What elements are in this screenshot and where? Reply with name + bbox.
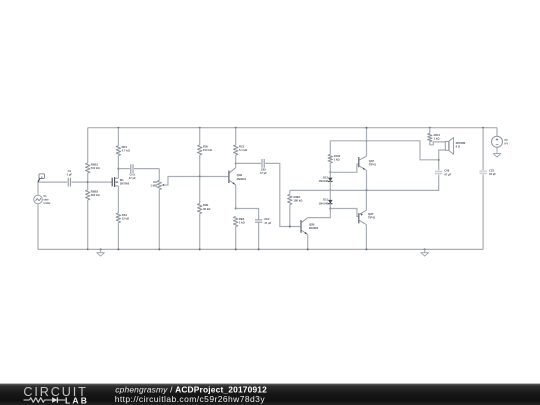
logo motif resistor — [30, 398, 53, 403]
node: RC2 top on rail — [235, 127, 237, 129]
node: pot ground junction — [158, 248, 160, 250]
voltage source V3 (9 V) — [492, 136, 503, 147]
node: Q1B collector node — [235, 162, 237, 164]
wire: output wire to R3B1 — [289, 190, 291, 194]
node: RE2 ground junction — [235, 248, 237, 250]
resistor RBB2 — [86, 190, 90, 200]
transistor Q2P (TIP42 PNP output) — [358, 213, 360, 223]
wire: collector node to C62 — [236, 162, 261, 164]
wire: pot bottom to ground rail — [158, 190, 160, 250]
wire: R162 to node A — [329, 163, 331, 172]
resistor RD1 — [116, 146, 120, 156]
wire: rail down to RBB1 — [87, 128, 89, 163]
svg-text:1 kΩ: 1 kΩ — [239, 221, 246, 225]
svg-text:V1: V1 — [43, 194, 47, 198]
transistor Q2B (2N3904 NPN VAS) — [300, 220, 302, 233]
wire: Q2B emitter to ground rail — [307, 235, 309, 250]
wire: wiper to Q1B base — [167, 177, 229, 186]
node: Q1B base bias node — [199, 176, 201, 178]
node: RD1 top on rail — [117, 127, 119, 129]
node: R312 top on rail — [429, 127, 431, 129]
wire: RBB1 to RBB2 — [87, 173, 89, 190]
wire: R2B to ground rail — [199, 214, 201, 250]
svg-text:2N3904: 2N3904 — [237, 177, 247, 181]
svg-text:C23: C23 — [489, 169, 494, 173]
svg-text:C1: C1 — [68, 169, 72, 173]
pot wiper arrow — [163, 184, 167, 186]
svg-text:1N4148: 1N4148 — [319, 179, 329, 183]
speaker SPKRM (8 Ω) — [445, 141, 448, 150]
wire: drain node to CH1 — [118, 168, 129, 170]
node flag: input node — [39, 174, 45, 179]
svg-text:http://circuitlab.com/c59r26hw: http://circuitlab.com/c59r26hw78d3y — [115, 394, 266, 404]
svg-text:D11: D11 — [323, 198, 328, 202]
svg-text:1 kΩ: 1 kΩ — [334, 157, 341, 161]
svg-text:R162: R162 — [334, 154, 341, 158]
wire: rail to R26 — [199, 128, 201, 145]
svg-text:1 µF: 1 µF — [67, 172, 73, 176]
wire: D11 to node C — [329, 204, 331, 209]
svg-text:510 kΩ: 510 kΩ — [91, 166, 101, 170]
wire: C10 to ground rail — [482, 175, 484, 250]
node: CE2 ground junction — [258, 248, 260, 250]
wire: C62 to Q2B base — [265, 163, 300, 226]
svg-text:TIP42: TIP42 — [368, 216, 376, 220]
transistor Q1B (2N3904 NPN) — [228, 171, 230, 184]
wire: R312 to speaker — [430, 142, 446, 145]
svg-text:CH1: CH1 — [130, 173, 136, 177]
capacitor C68 (47 µF electrolytic) — [435, 171, 442, 173]
svg-text:180 kΩ: 180 kΩ — [294, 198, 304, 202]
wire: RS1 to ground rail — [117, 223, 119, 250]
wire: rail to V3 — [496, 128, 498, 137]
resistor RS1 — [116, 213, 120, 223]
node: gate bias node — [87, 181, 89, 183]
resistor R312 — [428, 133, 432, 141]
svg-text:LAB: LAB — [65, 396, 89, 405]
svg-text:36 kΩ: 36 kΩ — [203, 207, 211, 211]
wire: rail to RC2 — [235, 128, 237, 145]
svg-text:390 kΩ: 390 kΩ — [91, 193, 101, 197]
svg-text:Q2P: Q2P — [368, 212, 374, 216]
node: V1 rail corner — [87, 249, 89, 251]
svg-text:Vol: Vol — [153, 180, 157, 184]
capacitor C1 — [68, 178, 70, 187]
svg-text:RBB2: RBB2 — [91, 189, 99, 193]
svg-text:1N4148: 1N4148 — [319, 201, 329, 205]
resistor R162 — [328, 154, 332, 163]
svg-text:47 µF: 47 µF — [264, 221, 271, 225]
wire: bottom ground rail — [38, 248, 483, 250]
transistor M1 (2N7000 NMOS) — [111, 178, 113, 187]
node: ground tap right — [424, 248, 426, 250]
node: Q2P ground junction — [365, 248, 367, 250]
node: C10 top on rail — [482, 127, 484, 129]
svg-text:C62: C62 — [261, 168, 266, 172]
wire: V3 to ground — [496, 147, 498, 150]
wire: speaker node down to C68 — [438, 160, 440, 171]
wire: node A to Q1P base — [330, 164, 358, 172]
capacitor C62 — [262, 159, 264, 168]
wire: R162 top / VCC link to speaker node — [330, 141, 438, 160]
transistor Q1P (TIP41 NPN output) — [358, 157, 360, 167]
wire: divider to M1 gate — [88, 181, 112, 183]
node: R26 top on rail — [199, 127, 201, 129]
node A: Q1P base node — [329, 171, 331, 173]
svg-text:Q2B: Q2B — [309, 222, 315, 226]
diode D12 (1N4148) — [328, 178, 333, 182]
svg-text:RC2: RC2 — [239, 145, 245, 149]
wire: Q2P collector to ground rail — [365, 225, 367, 250]
svg-text:R26: R26 — [203, 145, 208, 149]
svg-text:2N3904: 2N3904 — [309, 226, 319, 230]
svg-text:4.7 kΩ: 4.7 kΩ — [122, 149, 131, 153]
wire: VCC node to R162 — [329, 141, 331, 155]
wire: speaker node up to speaker — [439, 150, 446, 160]
wire: CH1 to volume pot — [134, 168, 159, 170]
node B: bias midpoint on output wire — [329, 189, 331, 191]
wire: Q1P emitter to output node — [366, 170, 368, 190]
capacitor CE2 — [255, 220, 262, 222]
svg-text:cphengrasmy / ACDProject_20170: cphengrasmy / ACDProject_20170912 — [115, 384, 267, 394]
svg-text:12 kΩ: 12 kΩ — [122, 216, 130, 220]
svg-text:R312: R312 — [434, 133, 441, 137]
svg-text:47 µF: 47 µF — [129, 176, 136, 180]
svg-text:M1: M1 — [120, 178, 124, 182]
svg-text:R2B: R2B — [203, 203, 208, 207]
ground symbol (input stage) — [100, 249, 102, 252]
resistor RC2 — [234, 145, 238, 155]
ground symbol (output stage) — [424, 249, 426, 252]
svg-text:RS1: RS1 — [122, 213, 128, 217]
node: rail junction above Q1P — [366, 127, 368, 129]
wire: Q2P emitter to output node — [365, 190, 367, 210]
wire: V1 bottom to ground rail — [37, 204, 39, 250]
wire: M1 source down to RS1 — [117, 186, 119, 213]
capacitor CH1 — [131, 164, 133, 173]
logo motif wire — [24, 399, 30, 401]
wire: RD1 to drain node — [117, 156, 119, 169]
svg-text:1 MΩ: 1 MΩ — [150, 184, 157, 188]
node: Q2B base junction — [289, 226, 291, 228]
wire: R26 to base node — [199, 155, 201, 177]
resistor RE2 — [234, 217, 238, 227]
wire: rail to C10 — [482, 128, 484, 170]
wire: Q1B emitter down — [235, 185, 237, 209]
capacitor C10 (supply bypass) — [479, 171, 486, 173]
svg-text:150 kΩ: 150 kΩ — [203, 148, 213, 152]
node: ground tap — [100, 248, 102, 250]
wire: emitter node to CE2 — [236, 209, 259, 220]
svg-text:sine: sine — [43, 197, 49, 201]
svg-text:33 µF: 33 µF — [489, 172, 496, 176]
svg-text:C68: C68 — [444, 169, 449, 173]
wire: R3B1 to Q2B base — [289, 205, 291, 227]
svg-text:9 V: 9 V — [504, 141, 508, 145]
wire: C1 to bias divider — [71, 181, 87, 183]
svg-text:RBB1: RBB1 — [91, 162, 99, 166]
wire: M1 drain up — [117, 169, 119, 179]
svg-text:1 kΩ: 1 kΩ — [434, 136, 441, 140]
node: speaker node — [438, 159, 440, 161]
node: R2B ground junction — [199, 248, 201, 250]
wire: Q1P collector to VCC node — [366, 141, 368, 156]
node: output at emitters — [366, 189, 368, 191]
node: drain node — [117, 168, 119, 170]
wire: rail to RD1 — [117, 128, 119, 146]
wire: RBB2 to ground rail — [87, 200, 89, 249]
wire: node B to D11 — [329, 190, 331, 200]
svg-text:D12: D12 — [323, 175, 328, 179]
resistor R3B1 — [288, 194, 292, 204]
node: RS1 ground junction — [117, 248, 119, 250]
logo motif diode — [52, 397, 57, 402]
wire: Q1B collector up — [235, 163, 237, 167]
wire: RC2 to collector node — [235, 155, 237, 163]
svg-text:CE2: CE2 — [264, 217, 270, 221]
node: Q2B emitter ground junction — [307, 248, 309, 250]
svg-text:TIP41: TIP41 — [369, 162, 377, 166]
wire: RE2 to ground rail — [235, 227, 237, 250]
wire: top supply rail — [88, 127, 497, 129]
svg-text:RD1: RD1 — [122, 145, 128, 149]
node C: Q2P base node — [329, 208, 331, 210]
svg-text:SPKRM: SPKRM — [456, 141, 466, 145]
voltage source V1 (sine 1 kHz) — [34, 195, 43, 204]
wire: D12 to node B — [329, 181, 331, 190]
wire: node A to D12 — [329, 172, 331, 177]
ground symbol (V3) — [496, 150, 498, 153]
resistor R26 — [198, 145, 202, 155]
svg-text:Q1P: Q1P — [369, 159, 375, 163]
potentiometer Vol (1 MΩ) — [157, 181, 161, 190]
wire: CE2 to ground rail — [258, 223, 260, 250]
svg-text:47 µF: 47 µF — [260, 171, 267, 175]
resistor R2B — [198, 204, 202, 214]
svg-text:RE2: RE2 — [239, 217, 245, 221]
wire: Q2B collector to diode chain — [308, 209, 331, 218]
svg-text:47 µF: 47 µF — [444, 172, 451, 176]
diode D11 (1N4148) — [328, 200, 333, 204]
svg-text:1 kHz: 1 kHz — [43, 201, 51, 205]
node: Q1B emitter node — [235, 208, 237, 210]
svg-text:2N7000: 2N7000 — [120, 181, 130, 185]
node: VCC tap for output stage — [366, 140, 368, 142]
svg-text:Q1B: Q1B — [237, 173, 243, 177]
svg-text:5.1 kΩ: 5.1 kΩ — [239, 148, 248, 152]
wire: output bus — [290, 175, 439, 191]
wire: node C to Q2P base — [330, 209, 358, 217]
resistor RBB1 — [86, 163, 90, 173]
wire: pot top lead — [158, 169, 160, 181]
svg-text:8 Ω: 8 Ω — [456, 145, 461, 149]
wire: base node to R2B — [199, 177, 201, 204]
wire: rail to R312 — [429, 128, 431, 134]
svg-text:V3: V3 — [504, 138, 508, 142]
wire: VCC node up to rail — [366, 128, 368, 141]
svg-text:R3B1: R3B1 — [294, 195, 301, 199]
wire: V1 top to C1 — [38, 182, 67, 195]
